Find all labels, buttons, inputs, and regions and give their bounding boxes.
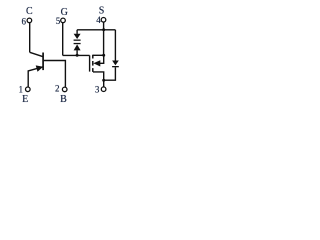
- pin 3 terminal: [101, 87, 106, 92]
- junction dot pin4 / top rail: [102, 28, 105, 31]
- body diode D3 cathode bar: [112, 66, 119, 67]
- wire diode stack bottom stub: [76, 50, 78, 55]
- diode D2 cathode bar: [74, 43, 81, 44]
- diode D2 triangle (cathode up): [74, 44, 81, 50]
- wire source stub bottom of channel: [93, 72, 104, 80]
- transistor Q1 base bar: [42, 53, 44, 71]
- wire pin 4 vertical: [103, 22, 105, 55]
- MOSFET M1 channel segment middle: [92, 61, 94, 66]
- body diode D3 triangle: [112, 61, 119, 66]
- wire body diode top: [114, 30, 116, 61]
- wire collector vertical from pin 6: [29, 23, 31, 52]
- svg-text:5: 5: [56, 16, 61, 26]
- svg-text:B: B: [60, 94, 67, 105]
- wire body tie down from node to arrow: [99, 55, 104, 63]
- wire pin 3 drop: [103, 80, 105, 87]
- wire drain rail from channel to pin4 column: [93, 54, 104, 56]
- pin 2 terminal: [62, 87, 67, 92]
- pin 4 terminal: [101, 18, 106, 23]
- pin 1 terminal: [26, 87, 31, 92]
- svg-text:E: E: [22, 94, 28, 105]
- svg-text:6: 6: [21, 16, 26, 26]
- MOSFET M1 body arrow: [93, 60, 100, 66]
- wire gate vertical from pin 5: [62, 23, 64, 56]
- pin 5 terminal: [61, 18, 66, 23]
- pin 6 terminal: [27, 18, 32, 23]
- MOSFET M1 channel segment top: [92, 55, 94, 59]
- wire gate horizontal to MOSFET gate bar: [63, 54, 90, 56]
- MOSFET M1 gate bar: [89, 55, 91, 71]
- svg-text:2: 2: [55, 83, 60, 93]
- svg-text:4: 4: [96, 15, 101, 25]
- transistor Q1 emitter arrowhead: [36, 65, 44, 71]
- wire bottom rail to body diode: [104, 67, 116, 80]
- diode D1 triangle (cathode down): [74, 34, 81, 39]
- wire S top rail: [77, 29, 115, 31]
- wire base lead of Q1 to pin 2: [44, 61, 66, 87]
- wire collector diagonal to Q1 base bar: [30, 52, 43, 56]
- svg-text:C: C: [26, 6, 33, 17]
- wire emitter diagonal of Q1: [28, 67, 42, 87]
- junction dot diode stack / gate wire: [76, 54, 79, 57]
- svg-text:3: 3: [95, 84, 100, 94]
- junction dot pin4 / drain rail: [102, 54, 105, 57]
- diode D1 cathode bar: [74, 40, 81, 41]
- svg-text:1: 1: [19, 84, 24, 94]
- MOSFET M1 channel segment bottom: [92, 68, 94, 72]
- svg-text:G: G: [61, 7, 68, 18]
- wire diode stack top stub: [76, 30, 78, 34]
- junction dot pin3 / bottom rail: [102, 79, 105, 82]
